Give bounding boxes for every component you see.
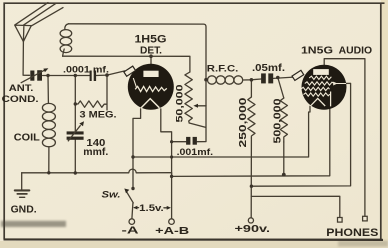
wire tickler bottom rail (plate rail) xyxy=(63,56,190,72)
capacitor .0001 mf plates xyxy=(90,71,92,82)
wire tube1 right filament leg to +A-B xyxy=(161,109,172,219)
tube 1N5G filament xyxy=(310,92,330,107)
choke R.F.C. (4 loops) xyxy=(206,79,208,81)
svg-text:500,000: 500,000 xyxy=(273,98,284,144)
svg-text:+A-B: +A-B xyxy=(155,226,190,237)
tube 1H5G DET envelope xyxy=(128,64,174,110)
terminal phones right xyxy=(363,216,368,221)
svg-text:50,000: 50,000 xyxy=(175,85,185,123)
rail B ground/filament-plus left xyxy=(22,169,172,176)
resistor 500,000 zigzag xyxy=(280,98,287,142)
wire audio plate top lead to phones right xyxy=(324,59,365,216)
svg-text:DET.: DET. xyxy=(140,45,162,56)
svg-text:.0001 mf.: .0001 mf. xyxy=(63,63,109,74)
rail B right segment xyxy=(172,106,330,176)
resistor 50k wiper arrowhead xyxy=(193,104,198,108)
coil COIL (5 loops) xyxy=(42,103,55,112)
antenna xyxy=(15,3,63,42)
svg-text:1H5G: 1H5G xyxy=(135,33,167,45)
switch Sw arrowhead xyxy=(124,189,129,194)
svg-text:ANT.: ANT. xyxy=(9,83,34,94)
svg-text:PHONES: PHONES xyxy=(326,227,378,239)
tube 1H5G grid zigzag xyxy=(135,86,167,91)
smudge bottom-left xyxy=(1,221,66,227)
battery 1.5v arrowheads xyxy=(133,206,137,210)
resistor 3 MEG zigzag xyxy=(75,75,107,110)
wire RFC junction down to 250k xyxy=(250,80,252,97)
tube 1N5G plate xyxy=(313,69,329,75)
wire 50k wiper arm xyxy=(196,105,206,107)
svg-text:R.F.C.: R.F.C. xyxy=(207,63,239,74)
tube 1N5G grid row 1 xyxy=(309,76,331,79)
wire tube1 plate top lead xyxy=(150,56,152,65)
wire coil bottom lead xyxy=(48,147,50,173)
wire 500k bottom lead xyxy=(283,142,285,175)
svg-text:Sw.: Sw. xyxy=(102,190,121,201)
capacitor ANT.COND plates xyxy=(30,71,34,81)
tube 1H5G plate xyxy=(143,71,158,77)
wire 1.5v arrows xyxy=(134,207,168,209)
smudge bottom-right xyxy=(338,241,388,247)
wire .05mf right lead to grid cap xyxy=(274,77,294,78)
tube 1N5G grid row 4 xyxy=(304,93,330,96)
tube 1N5G AUDIO envelope xyxy=(302,65,347,110)
terminal +A-B xyxy=(169,219,175,225)
capacitor 140 mmf plates xyxy=(67,131,84,134)
terminal +90v xyxy=(248,218,253,223)
svg-text:.001mf.: .001mf. xyxy=(177,147,214,158)
phones rail B+ xyxy=(251,196,339,217)
tube 1N5G grid row 2 (screen, lead to right) xyxy=(305,82,346,85)
capacitor .001 mf plates xyxy=(186,137,190,145)
tube 1H5G filament xyxy=(141,99,159,108)
ground symbol bars xyxy=(15,189,29,191)
svg-text:3 MEG.: 3 MEG. xyxy=(80,110,117,121)
svg-text:+90v.: +90v. xyxy=(235,224,271,235)
terminal -A xyxy=(129,219,135,225)
svg-text:COIL: COIL xyxy=(14,133,40,144)
terminal phones left xyxy=(338,218,343,223)
svg-text:1N5G: 1N5G xyxy=(301,45,333,57)
wire grid lead after .0001 cap xyxy=(96,71,125,76)
tube 1H5G grid cap stub xyxy=(124,66,136,76)
capacitor 140 mmf arrow xyxy=(68,125,81,141)
switch Sw lever xyxy=(126,192,133,219)
ground GND drop xyxy=(21,173,23,190)
tube 1N5G grid cap stub xyxy=(292,70,304,80)
resistor 250,000 zigzag xyxy=(248,97,255,138)
resistor 50,000 zigzag xyxy=(185,72,192,123)
wire antenna lead down xyxy=(23,42,30,76)
svg-text:-A: -A xyxy=(122,225,140,236)
svg-text:.05mf.: .05mf. xyxy=(252,63,285,74)
svg-text:1.5v.: 1.5v. xyxy=(139,202,164,213)
svg-text:AUDIO: AUDIO xyxy=(339,45,373,57)
wire tickler top rail to right vertical xyxy=(69,24,207,142)
rail A filament-minus xyxy=(133,106,310,157)
wire 500k top lead xyxy=(278,78,284,99)
svg-text:mmf.: mmf. xyxy=(83,147,108,158)
wire 140mmf / 3MEG left vertical xyxy=(74,76,76,174)
wire 50k bottom tail xyxy=(189,123,206,127)
svg-text:GND.: GND. xyxy=(11,204,37,215)
tube 1N5G grid row 3 (lead to cap stub) xyxy=(301,87,330,90)
wire 250k bottom to +90v terminal xyxy=(250,138,252,218)
svg-text:COND.: COND. xyxy=(2,94,39,105)
capacitor ANT.COND arrow xyxy=(21,70,46,83)
capacitor .05 mf plates xyxy=(261,73,266,83)
tube 1N5G screen lead xyxy=(346,82,351,84)
wire tube1 left filament leg xyxy=(133,109,141,189)
tickler coil (3 loops, box left side) xyxy=(63,24,69,56)
wire cap to coil/grid junctions xyxy=(43,75,90,77)
svg-text:250,000: 250,000 xyxy=(238,97,249,148)
wire .001mf left lead xyxy=(172,141,186,143)
wire coil top lead xyxy=(47,76,49,104)
screen rail +90 to audio screen xyxy=(251,83,350,186)
tube 1H5G grid lead from cap xyxy=(133,78,136,88)
